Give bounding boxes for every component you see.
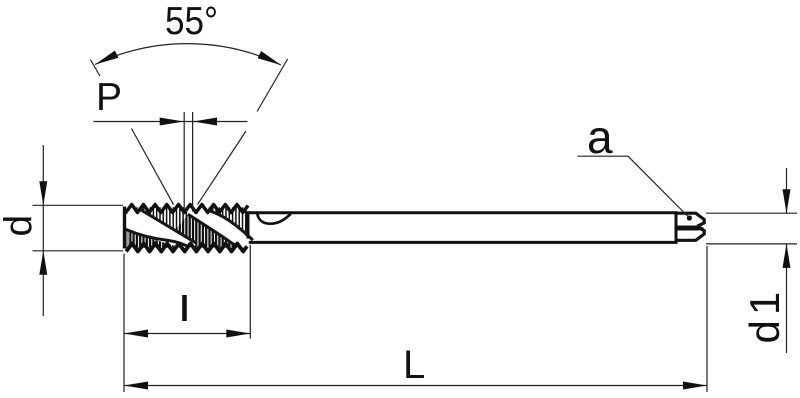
P arrow left [160,118,184,126]
svg-text:55°: 55° [165,0,218,42]
a leader diagonal [628,156,688,216]
P dimension line [94,121,248,123]
square end top half outline [676,213,704,226]
d1 extension line bottom [706,243,797,245]
svg-text:L: L [403,343,425,387]
P extension line left [183,112,185,212]
svg-text:P: P [96,76,122,119]
d1 dimension line lower [786,244,788,353]
thread angle right side line [198,131,247,205]
thread angle left side line [132,129,174,205]
55deg arc arrow right [258,51,281,65]
P arrow right [193,118,217,126]
a leader underline [578,155,629,157]
L dimension line [124,385,707,387]
shank bottom line [249,241,677,244]
d1 arrow top [783,189,791,213]
flute band A upper boundary [141,210,197,243]
l dimension line [124,333,250,335]
label l [182,295,187,321]
thread right end edge at shank junction [247,211,250,238]
flute band A lower boundary [124,228,190,247]
d1 dimension line upper [786,168,788,213]
thread left end edge [123,207,126,249]
l extension line right [249,245,251,339]
flute band B upper boundary [211,211,253,240]
square end bottom half outline [676,227,704,240]
flute band B lower boundary [188,214,238,247]
l arrow right [226,330,250,338]
L extension line right [706,246,708,392]
thread bottom crest zigzag [126,244,247,252]
thread land hatching [126,207,246,247]
square end corner band [676,226,699,231]
square section start line [675,211,678,244]
d1 arrow bottom [783,244,791,268]
d arrow bottom [39,251,47,275]
thread angle left side tick at arc [90,60,100,77]
svg-text:d1: d1 [741,287,788,344]
d extension line top [33,204,124,206]
center dot on square [687,215,692,220]
L arrow left [124,382,148,390]
shank top line [247,211,677,214]
d1 extension line top [706,212,797,214]
thread angle right side tick at arc [257,59,288,112]
d dimension line [42,145,44,316]
l arrow left [124,330,148,338]
d arrow top [39,181,47,205]
svg-text:a: a [587,111,613,163]
55deg arc arrow left [95,51,118,65]
d extension line bottom [33,250,124,252]
thread top crest zigzag [125,205,248,213]
L arrow right [683,382,707,390]
P extension line right [192,112,194,212]
l extension line left (also for L) [123,254,125,393]
flute runout scoop on shank [257,214,291,224]
55deg arc [95,44,281,65]
svg-text:d: d [0,215,41,237]
